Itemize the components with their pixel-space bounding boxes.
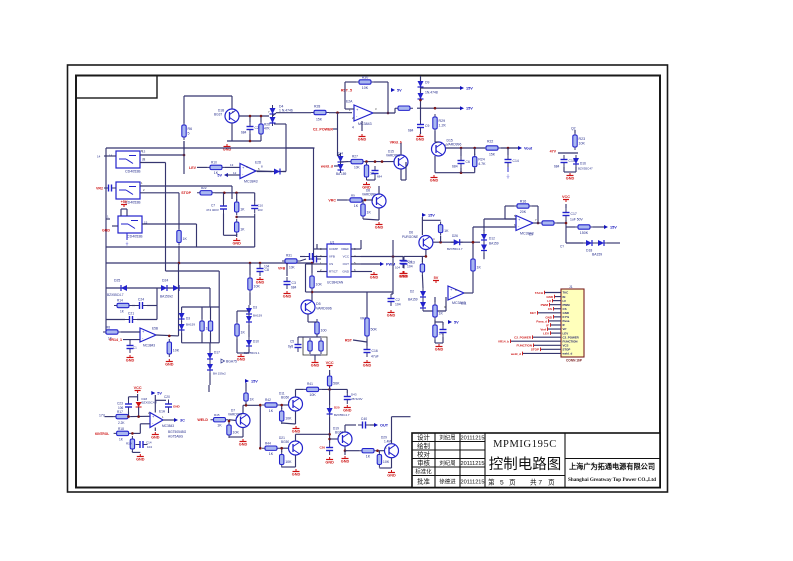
svg-text:10K: 10K — [173, 348, 180, 352]
svg-text:GND: GND — [342, 270, 350, 274]
svg-text:GND: GND — [416, 138, 425, 142]
svg-text:C16: C16 — [372, 349, 378, 353]
svg-text:MPMIG195C: MPMIG195C — [493, 439, 557, 450]
svg-text:BG50: BG50 — [281, 395, 289, 399]
svg-text:C21: C21 — [128, 312, 134, 316]
svg-text:VFB: VFB — [329, 255, 335, 259]
svg-text:VARD996: VARD996 — [447, 142, 462, 146]
svg-text:1K: 1K — [366, 455, 371, 459]
svg-text:10K: 10K — [289, 265, 296, 269]
svg-text:20111215: 20111215 — [460, 435, 484, 441]
svg-text:⏚: ⏚ — [125, 240, 129, 246]
svg-text:STOP: STOP — [181, 191, 191, 195]
svg-text:684: 684 — [377, 174, 382, 178]
svg-text:R19: R19 — [126, 441, 132, 445]
svg-text:D20: D20 — [334, 405, 340, 409]
svg-text:4.7K: 4.7K — [478, 162, 486, 166]
svg-text:校对: 校对 — [417, 449, 430, 458]
svg-text:VFB: VFB — [278, 266, 286, 270]
svg-text:MC3843: MC3843 — [143, 343, 155, 347]
svg-text:VREF: VREF — [341, 247, 349, 251]
svg-text:TACH: TACH — [535, 291, 543, 295]
svg-text:MC3843: MC3843 — [358, 122, 372, 126]
svg-text:C14: C14 — [513, 159, 519, 163]
svg-text:5: 5 — [188, 131, 190, 135]
svg-text:1K: 1K — [439, 311, 444, 315]
svg-text:GND: GND — [375, 226, 384, 230]
svg-text:CS: CS — [548, 307, 552, 311]
svg-text:IF: IF — [546, 323, 549, 327]
svg-text:150K: 150K — [580, 231, 589, 235]
svg-text:页: 页 — [509, 479, 516, 487]
svg-text:COMP: COMP — [329, 247, 338, 251]
svg-text:GND: GND — [358, 138, 367, 142]
svg-text:C14: C14 — [146, 440, 152, 444]
svg-text:1uF 50V: 1uF 50V — [570, 217, 584, 221]
svg-text:14: 14 — [97, 154, 101, 158]
svg-text:GND: GND — [363, 364, 372, 368]
svg-text:KINTROL: KINTROL — [95, 432, 109, 436]
svg-text:684: 684 — [554, 164, 560, 168]
svg-text:47K: 47K — [264, 126, 271, 130]
svg-text:BA 159: BA 159 — [336, 172, 347, 176]
svg-text:FUNCTION: FUNCTION — [517, 344, 533, 348]
svg-text:R24: R24 — [478, 158, 485, 162]
svg-text:VR1: VR1 — [360, 316, 366, 320]
svg-text:15V: 15V — [428, 214, 435, 218]
svg-text:10K: 10K — [316, 282, 323, 286]
svg-text:BA159: BA159 — [186, 322, 195, 326]
svg-text:J1: J1 — [569, 285, 573, 289]
svg-text:D5: D5 — [316, 302, 321, 306]
svg-text:1K: 1K — [444, 229, 449, 233]
svg-text:684: 684 — [241, 130, 247, 134]
svg-text:BZX55C4.7: BZX55C4.7 — [334, 413, 350, 417]
svg-text:GND: GND — [292, 473, 301, 477]
svg-text:1K: 1K — [250, 397, 255, 401]
svg-text:BG37: BG37 — [214, 112, 222, 116]
svg-text:RT/CT: RT/CT — [329, 270, 338, 274]
svg-text:1K: 1K — [241, 330, 246, 334]
svg-text:E5B: E5B — [152, 326, 158, 330]
svg-text:PURGONE: PURGONE — [402, 235, 418, 239]
svg-text:D26: D26 — [452, 234, 458, 238]
svg-text:R44: R44 — [265, 441, 271, 445]
svg-text:R29: R29 — [439, 119, 446, 123]
svg-text:474 400V: 474 400V — [206, 208, 219, 212]
svg-text:E2A: E2A — [346, 99, 353, 103]
svg-text:10K: 10K — [579, 141, 586, 145]
svg-text:1.4M: 1.4M — [384, 439, 391, 443]
svg-text:R30: R30 — [362, 75, 369, 79]
svg-text:R18: R18 — [118, 427, 124, 431]
svg-text:WELD: WELD — [197, 418, 208, 422]
svg-text:VCC: VCC — [562, 195, 570, 199]
svg-text:684: 684 — [291, 285, 297, 289]
svg-text:C20: C20 — [164, 395, 170, 399]
svg-text:VCC: VCC — [343, 255, 350, 259]
svg-text:STOP: STOP — [531, 348, 539, 352]
svg-text:104: 104 — [407, 264, 413, 268]
svg-text:4: 4 — [352, 125, 354, 129]
svg-text:15V: 15V — [610, 226, 617, 230]
svg-text:1K: 1K — [367, 210, 372, 214]
svg-text:1N.4748: 1N.4748 — [425, 90, 438, 94]
svg-text:D14: D14 — [337, 151, 343, 155]
svg-text:R9: R9 — [351, 193, 355, 197]
svg-text:⏚: ⏚ — [506, 173, 511, 179]
svg-text:1K: 1K — [354, 204, 359, 208]
svg-text:D2: D2 — [410, 289, 414, 293]
svg-text:VARD996: VARD996 — [386, 153, 400, 157]
svg-text:15V: 15V — [251, 380, 258, 384]
svg-text:BZX55C4.7: BZX55C4.7 — [107, 293, 124, 297]
svg-text:10K: 10K — [354, 165, 361, 169]
svg-text:6y8: 6y8 — [288, 344, 293, 348]
svg-text:10K: 10K — [362, 86, 369, 90]
svg-text:50K: 50K — [371, 327, 378, 331]
svg-text:10K: 10K — [383, 460, 390, 464]
svg-text:2.2K: 2.2K — [118, 421, 125, 425]
svg-text:C6: C6 — [466, 160, 470, 164]
svg-text:R17: R17 — [117, 410, 123, 414]
svg-text:C8: C8 — [265, 268, 269, 272]
svg-text:GND: GND — [400, 275, 409, 279]
svg-text:C13: C13 — [409, 261, 415, 265]
svg-text:GND: GND — [151, 436, 160, 440]
svg-text:CONN 16P: CONN 16P — [566, 359, 583, 363]
svg-text:MC3843: MC3843 — [162, 424, 174, 428]
svg-text:R23: R23 — [579, 137, 586, 141]
svg-text:14: 14 — [109, 153, 113, 157]
svg-text:GND: GND — [165, 363, 174, 367]
svg-text:BA159: BA159 — [592, 252, 602, 256]
svg-text:1 N.4746: 1 N.4746 — [279, 108, 293, 112]
svg-text:GND: GND — [430, 179, 439, 183]
svg-text:CD4053B: CD4053B — [127, 235, 143, 239]
svg-text:C17: C17 — [571, 212, 577, 216]
svg-text:weld_d: weld_d — [320, 164, 333, 168]
svg-text:R10: R10 — [211, 160, 217, 164]
svg-text:LEV: LEV — [543, 332, 549, 336]
svg-text:E11: E11 — [461, 301, 467, 305]
svg-text:Vout: Vout — [524, 147, 533, 151]
svg-text:AGT5ABG: AGT5ABG — [168, 434, 184, 438]
svg-text:GND: GND — [343, 409, 352, 413]
svg-text:VR2: VR2 — [96, 186, 103, 190]
svg-text:13: 13 — [230, 163, 234, 167]
svg-text:C1: C1 — [133, 345, 137, 349]
svg-text:C2_POWER: C2_POWER — [313, 127, 334, 131]
svg-text:刘纪周: 刘纪周 — [439, 433, 455, 441]
svg-text:D10: D10 — [253, 339, 259, 343]
svg-text:1K: 1K — [240, 207, 245, 211]
svg-text:15: 15 — [144, 220, 148, 224]
svg-text:56K: 56K — [333, 381, 340, 385]
svg-text:GND: GND — [232, 242, 241, 246]
svg-text:C40: C40 — [361, 417, 367, 421]
svg-text:PWM: PWM — [386, 263, 395, 267]
svg-text:VCC: VCC — [326, 361, 334, 365]
svg-text:C24: C24 — [138, 298, 144, 302]
svg-text:15V: 15V — [466, 107, 473, 111]
svg-text:页: 页 — [548, 479, 555, 487]
svg-text:D6: D6 — [409, 230, 413, 234]
svg-text:E9: E9 — [529, 232, 533, 236]
svg-text:5V: 5V — [157, 392, 162, 396]
svg-text:BZX55C4.7: BZX55C4.7 — [447, 247, 463, 251]
svg-text:BGT5054BG: BGT5054BG — [168, 430, 187, 434]
svg-text:BA159: BA159 — [489, 241, 499, 245]
svg-text:2B 520V: 2B 520V — [351, 397, 363, 401]
svg-text:1.2K: 1.2K — [439, 123, 447, 127]
svg-text:GND: GND — [126, 359, 135, 363]
svg-text:D9: D9 — [425, 80, 429, 84]
svg-text:OUT: OUT — [343, 262, 350, 266]
svg-text:KEY: KEY — [530, 311, 536, 315]
svg-text:GND: GND — [136, 458, 145, 462]
svg-text:Q2: Q2 — [571, 126, 576, 130]
svg-text:批准: 批准 — [417, 477, 430, 486]
svg-text:LEV: LEV — [189, 166, 197, 170]
svg-text:RST: RST — [345, 338, 353, 342]
svg-text:OUT: OUT — [380, 424, 389, 428]
svg-text:20111215: 20111215 — [460, 480, 484, 486]
svg-text:C2: C2 — [396, 298, 400, 302]
svg-text:CD4053B: CD4053B — [125, 170, 141, 174]
svg-text:C2_POWER: C2_POWER — [514, 336, 532, 340]
svg-text:C7: C7 — [211, 203, 215, 207]
svg-text:10K: 10K — [233, 430, 240, 434]
svg-text:VR14_b: VR14_b — [498, 340, 509, 344]
svg-text:104: 104 — [395, 302, 401, 306]
svg-text:10K: 10K — [254, 284, 261, 288]
svg-text:审核: 审核 — [417, 458, 430, 467]
svg-text:R27: R27 — [352, 154, 358, 158]
svg-text:1K: 1K — [269, 452, 274, 456]
svg-text:684: 684 — [408, 128, 414, 132]
svg-text:D17: D17 — [214, 350, 220, 354]
svg-text:BA159: BA159 — [408, 297, 418, 301]
svg-text:R8: R8 — [106, 325, 110, 329]
svg-text:5: 5 — [500, 480, 504, 487]
svg-text:GND: GND — [387, 314, 396, 318]
svg-text:104: 104 — [147, 445, 152, 449]
svg-text:1K: 1K — [477, 265, 482, 269]
svg-text:C5: C5 — [290, 339, 294, 343]
svg-text:R6: R6 — [188, 127, 193, 131]
svg-text:D43: D43 — [351, 392, 357, 396]
svg-text:R42: R42 — [265, 398, 271, 402]
svg-text:1K: 1K — [217, 424, 222, 428]
svg-text:GND: GND — [239, 443, 248, 447]
svg-text:GND: GND — [283, 295, 292, 299]
svg-text:设计: 设计 — [417, 432, 430, 441]
svg-text:D24: D24 — [162, 278, 168, 282]
svg-text:5V: 5V — [217, 174, 222, 178]
svg-text:GND: GND — [325, 461, 334, 465]
svg-text:D12: D12 — [489, 236, 495, 240]
svg-text:1K: 1K — [240, 227, 245, 231]
svg-text:C23: C23 — [117, 401, 123, 405]
svg-text:R45: R45 — [214, 413, 220, 417]
svg-text:控制电路图: 控制电路图 — [489, 456, 562, 473]
svg-text:Shanghai Greatway Top Power CO: Shanghai Greatway Top Power CO.,Ltd — [568, 477, 656, 483]
svg-text:47uF: 47uF — [371, 354, 379, 358]
svg-text:10K: 10K — [285, 416, 292, 420]
svg-text:5V: 5V — [434, 276, 439, 280]
svg-text:47V: 47V — [550, 149, 557, 153]
svg-text:GND: GND — [566, 177, 575, 181]
svg-text:15V: 15V — [466, 87, 473, 91]
svg-text:R22: R22 — [487, 139, 493, 143]
svg-text:20111215: 20111215 — [460, 461, 484, 467]
svg-text:15K: 15K — [316, 117, 323, 121]
svg-text:5V: 5V — [397, 89, 402, 93]
svg-text:20K: 20K — [520, 210, 527, 214]
svg-text:GND: GND — [341, 460, 350, 464]
svg-text:绘制: 绘制 — [417, 441, 430, 450]
svg-text:GND: GND — [292, 430, 301, 434]
svg-text:R16: R16 — [520, 199, 527, 203]
svg-text:104: 104 — [395, 265, 400, 269]
svg-text:BA159: BA159 — [253, 313, 262, 317]
svg-text:R31: R31 — [286, 253, 292, 257]
svg-text:徐德进: 徐德进 — [439, 478, 456, 486]
svg-text:第: 第 — [488, 478, 495, 487]
svg-text:weld_d: weld_d — [510, 352, 521, 356]
svg-text:C26: C26 — [319, 445, 325, 449]
svg-text:VARD996: VARD996 — [316, 306, 332, 310]
svg-text:103: 103 — [258, 208, 263, 212]
svg-text:C9: C9 — [425, 124, 429, 128]
svg-text:C10: C10 — [258, 203, 264, 207]
svg-text:GND: GND — [102, 228, 110, 232]
svg-text:RST_5: RST_5 — [341, 88, 352, 92]
svg-text:共 7: 共 7 — [530, 478, 542, 487]
svg-text:15K: 15K — [489, 152, 496, 156]
svg-text:VR14_1: VR14_1 — [109, 338, 122, 342]
svg-text:GND: GND — [387, 474, 396, 478]
svg-text:UC3842AN: UC3842AN — [327, 280, 344, 284]
svg-text:GND: GND — [237, 358, 246, 362]
svg-text:E1A: E1A — [159, 409, 166, 413]
svg-text:5V: 5V — [454, 321, 459, 325]
svg-text:CS: CS — [329, 262, 333, 266]
svg-text:D3: D3 — [253, 305, 257, 309]
svg-text:GND: GND — [435, 348, 444, 352]
svg-text:weld_d: weld_d — [562, 352, 573, 356]
svg-text:GND: GND — [370, 276, 379, 280]
svg-text:U1: U1 — [330, 240, 334, 244]
svg-text:D3: D3 — [186, 316, 190, 320]
svg-text:3C: 3C — [180, 419, 185, 423]
svg-text:VRC: VRC — [328, 198, 336, 202]
svg-text:D16: D16 — [580, 161, 586, 165]
svg-text:标准化: 标准化 — [415, 467, 432, 475]
svg-text:684: 684 — [452, 164, 458, 168]
svg-text:VCC: VCC — [134, 386, 142, 390]
svg-text:R14: R14 — [117, 298, 123, 302]
svg-text:1K: 1K — [269, 409, 274, 413]
svg-text:C3: C3 — [292, 281, 296, 285]
svg-text:VARD996: VARD996 — [362, 192, 376, 196]
svg-text:VARD996: VARD996 — [228, 412, 242, 416]
svg-text:BA159x2: BA159x2 — [160, 294, 173, 298]
svg-text:BA 159x2: BA 159x2 — [213, 371, 226, 375]
svg-text:GND: GND — [311, 364, 320, 368]
svg-text:BZX55C47: BZX55C47 — [578, 166, 593, 170]
svg-text:12: 12 — [233, 171, 237, 175]
svg-text:MC3843: MC3843 — [244, 180, 258, 184]
svg-text:C?: C? — [560, 244, 564, 248]
svg-text:上海广为拓通电源有限公司: 上海广为拓通电源有限公司 — [569, 462, 655, 471]
svg-text:GND: GND — [256, 281, 265, 285]
svg-text:D25: D25 — [114, 278, 120, 282]
svg-text:+5V: +5V — [121, 200, 128, 204]
svg-text:GND: GND — [173, 404, 181, 408]
svg-text:R28: R28 — [314, 104, 320, 108]
svg-text:R22: R22 — [201, 186, 207, 190]
svg-text:BGA75: BGA75 — [226, 359, 237, 363]
svg-text:10K: 10K — [285, 460, 292, 464]
svg-text:100: 100 — [321, 328, 327, 332]
svg-text:刘纪周: 刘纪周 — [439, 459, 455, 467]
svg-text:104: 104 — [264, 264, 270, 268]
svg-text:1K: 1K — [183, 237, 188, 241]
svg-text:R41: R41 — [307, 382, 313, 386]
svg-text:10K: 10K — [309, 393, 316, 397]
